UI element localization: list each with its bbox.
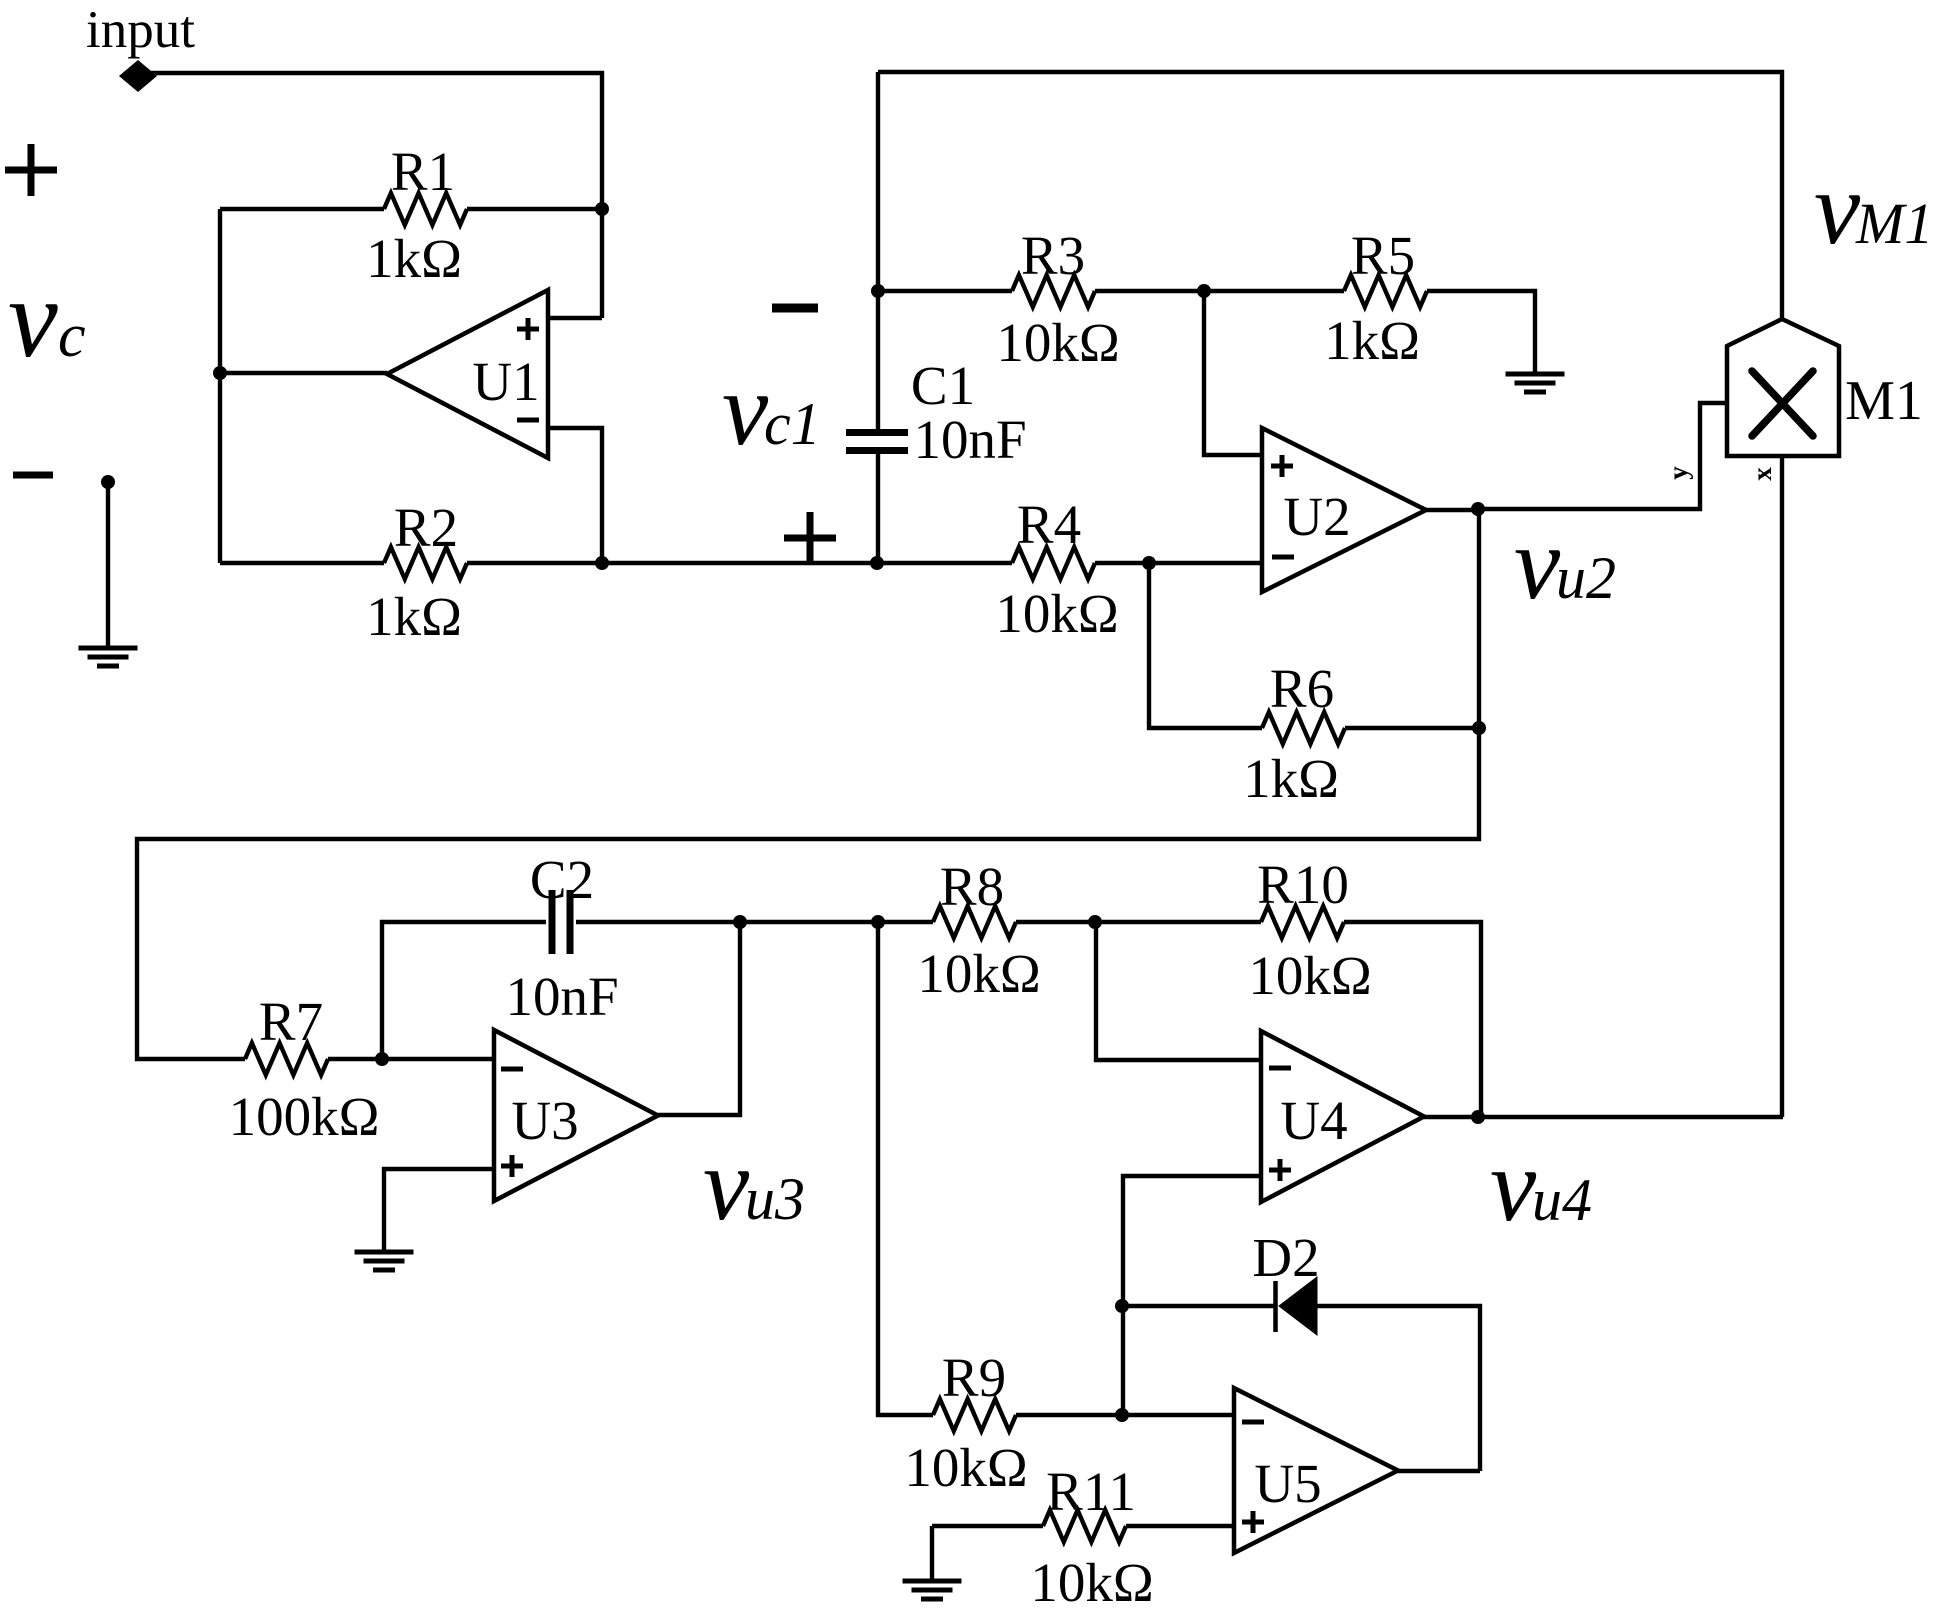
label - (vc1) <box>772 304 818 313</box>
wire input to U1 <box>138 73 602 318</box>
label - (vc) <box>13 472 53 479</box>
wire U3 + to ground <box>384 1169 494 1252</box>
svg-text:U5: U5 <box>1254 1453 1321 1514</box>
resistor R2 <box>220 561 384 565</box>
node C1 bottom / R4 left <box>870 556 884 570</box>
svg-text:input: input <box>86 1 195 59</box>
resistor R1 <box>220 207 384 211</box>
wire C2 branch <box>382 922 546 1059</box>
node D2 left <box>1115 1299 1129 1313</box>
wire C1 branch bottom <box>876 452 880 563</box>
ground (R11) <box>903 1579 962 1584</box>
node U3 feedback <box>733 915 747 929</box>
node R9 branch <box>871 915 885 929</box>
svg-text:1kΩ: 1kΩ <box>366 586 462 647</box>
svg-text:R4: R4 <box>1017 494 1081 555</box>
wire R9 branch vertical <box>878 922 933 1415</box>
wire M1 x input vertical <box>1780 456 1784 1117</box>
svg-text:R6: R6 <box>1270 658 1334 719</box>
svg-text:v: v <box>703 1127 750 1242</box>
node R6 right <box>1472 721 1486 735</box>
node vc ground <box>101 475 115 489</box>
node R2 right <box>595 556 609 570</box>
wire left rail <box>218 209 222 563</box>
svg-text:U2: U2 <box>1283 486 1350 547</box>
svg-text:C1: C1 <box>911 355 975 416</box>
svg-text:x: x <box>1747 467 1777 481</box>
node input <box>119 60 157 92</box>
resistor R10 <box>1095 920 1261 924</box>
svg-text:100kΩ: 100kΩ <box>229 1086 380 1147</box>
resistor R4 <box>877 561 1012 565</box>
resistor R5 <box>1204 289 1344 293</box>
node R8 right <box>1088 915 1102 929</box>
svg-text:10kΩ: 10kΩ <box>917 943 1040 1004</box>
wire M1 top feedback <box>878 72 1782 319</box>
node R3/R5 <box>1197 284 1211 298</box>
resistor R9 <box>933 1399 1016 1431</box>
svg-text:c: c <box>58 302 86 370</box>
wire U5 - stub <box>1122 1413 1234 1417</box>
wire vc to ground <box>106 482 110 648</box>
capacitor C1 <box>846 429 908 436</box>
svg-text:M1: M1 <box>1845 370 1923 432</box>
svg-text:R3: R3 <box>1021 225 1085 286</box>
op-amp U4 <box>1261 1031 1424 1202</box>
svg-text:R11: R11 <box>1046 1461 1136 1522</box>
resistor R7 <box>245 1043 328 1075</box>
node U1 output <box>213 366 227 380</box>
op-amp U5 <box>1234 1388 1398 1553</box>
svg-text:10kΩ: 10kΩ <box>995 583 1118 644</box>
node U2 output <box>1471 502 1485 516</box>
svg-text:v: v <box>1514 506 1561 621</box>
svg-text:10nF: 10nF <box>505 966 618 1027</box>
svg-text:R8: R8 <box>940 856 1004 917</box>
svg-text:10nF: 10nF <box>913 409 1026 470</box>
svg-text:y: y <box>1663 466 1693 480</box>
svg-text:u3: u3 <box>745 1166 805 1232</box>
wire C2 to R8 <box>576 920 933 924</box>
resistor R6 <box>1149 563 1262 728</box>
wire R11 to ground <box>930 1526 934 1581</box>
node U4 output <box>1471 1110 1485 1124</box>
svg-text:10kΩ: 10kΩ <box>904 1437 1027 1498</box>
svg-text:v: v <box>8 257 58 381</box>
svg-text:R10: R10 <box>1257 854 1349 915</box>
svg-text:1kΩ: 1kΩ <box>1324 310 1420 371</box>
diode D2 <box>1122 1304 1274 1308</box>
svg-text:1kΩ: 1kΩ <box>366 228 462 289</box>
op-amp U1 <box>387 290 548 458</box>
wire U1 - stub <box>548 428 602 563</box>
wire y input to M1 <box>1479 403 1727 509</box>
node C1 top / R3 left <box>871 284 885 298</box>
svg-text:10kΩ: 10kΩ <box>1030 1552 1153 1609</box>
wire U4 output <box>1424 1115 1783 1119</box>
svg-text:1kΩ: 1kΩ <box>1243 748 1339 809</box>
op-amp U3 <box>494 1030 658 1201</box>
wire U3 output feedback <box>658 922 740 1115</box>
node R9 right <box>1115 1408 1129 1422</box>
svg-text:R9: R9 <box>942 1347 1006 1408</box>
wire U4 - branch <box>1096 922 1261 1060</box>
svg-text:v: v <box>722 352 769 467</box>
svg-text:10kΩ: 10kΩ <box>1248 945 1371 1006</box>
capacitor C2 <box>549 890 556 954</box>
svg-text:u4: u4 <box>1532 1167 1592 1233</box>
resistor R3 <box>878 289 1012 293</box>
wire vu2 down-left rail <box>137 509 1479 1059</box>
wire C1 branch top <box>876 72 880 430</box>
svg-text:M1: M1 <box>1855 191 1933 256</box>
svg-text:U1: U1 <box>472 351 539 412</box>
multiplier M1 <box>1727 319 1839 456</box>
svg-text:c1: c1 <box>764 391 821 457</box>
svg-text:v: v <box>1814 151 1861 266</box>
svg-text:u2: u2 <box>1556 545 1616 611</box>
label + (vc1) <box>784 535 836 542</box>
svg-text:C2: C2 <box>530 849 594 910</box>
wire U1 + stub <box>548 316 602 320</box>
svg-text:U4: U4 <box>1280 1090 1347 1151</box>
resistor R8 <box>933 906 1016 938</box>
op-amp U2 <box>1262 428 1426 592</box>
node R7 right <box>375 1052 389 1066</box>
svg-text:R5: R5 <box>1351 225 1415 286</box>
wire U2 + branch <box>1204 291 1261 455</box>
label + (vc) <box>5 167 57 174</box>
node R1 right <box>595 202 609 216</box>
svg-text:v: v <box>1490 1128 1537 1243</box>
wire U5 output <box>1398 1469 1480 1473</box>
svg-text:U3: U3 <box>511 1090 578 1151</box>
resistor R11 <box>932 1524 1043 1528</box>
svg-text:R7: R7 <box>259 991 323 1052</box>
ground (U3) <box>355 1250 414 1255</box>
ground (R5) <box>1506 372 1565 377</box>
svg-text:D2: D2 <box>1252 1227 1319 1288</box>
ground (vc) <box>79 646 138 651</box>
svg-text:R1: R1 <box>391 141 455 202</box>
svg-text:R2: R2 <box>394 497 458 558</box>
svg-text:10kΩ: 10kΩ <box>996 312 1119 373</box>
wire U2 output <box>1426 508 1479 512</box>
wire U4 + branch <box>1123 1176 1261 1415</box>
node R4 right <box>1142 556 1156 570</box>
wire U1 output <box>220 371 387 375</box>
